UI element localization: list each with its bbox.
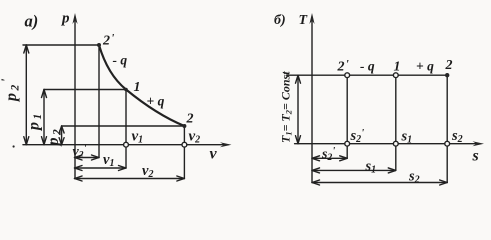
p axis — [74, 17, 76, 179]
point 2' right — [345, 73, 350, 78]
dimension line s1 — [312, 168, 396, 173]
isotherm curve 2'-1-2 — [99, 45, 184, 126]
vertical line from point 2 right — [446, 75, 448, 182]
point 1 right — [393, 73, 398, 78]
svg-text:- q: - q — [113, 53, 128, 68]
dimension line p2 — [59, 126, 64, 145]
svg-text:а): а) — [25, 12, 39, 31]
horizontal construction line at p2 — [62, 125, 185, 127]
point 2 right — [445, 73, 449, 77]
svg-text:s: s — [472, 148, 479, 165]
dimension line T1=T2=Const — [296, 75, 301, 144]
T axis — [311, 17, 313, 183]
svg-text:1: 1 — [134, 80, 141, 95]
s axis — [295, 143, 480, 145]
horizontal construction line at p2' — [23, 44, 99, 46]
svg-text:T1= T2= Const: T1= T2= Const — [279, 71, 294, 143]
vertical construction line from point 2 — [183, 126, 185, 179]
vertical line from point 1 right — [395, 75, 397, 170]
v axis — [23, 144, 228, 146]
svg-text:T: T — [299, 13, 309, 28]
point s1 on axis — [393, 141, 398, 146]
point s2' on axis — [345, 141, 350, 146]
horizontal construction line at p1 — [44, 89, 126, 91]
dimension line v2' — [75, 155, 100, 160]
svg-text:2: 2 — [445, 58, 453, 73]
vertical construction line from point 1 — [125, 90, 127, 169]
isotherm line T=const — [287, 74, 448, 76]
svg-text:v: v — [210, 146, 218, 163]
svg-text:+ q: + q — [416, 59, 434, 74]
vertical line from point 2' right — [346, 75, 348, 158]
point v1 on axis — [124, 142, 129, 147]
svg-text:+ q: + q — [147, 94, 165, 109]
dimension line v1 — [75, 166, 127, 171]
svg-text:2: 2 — [186, 112, 194, 127]
ink speck — [13, 145, 15, 147]
svg-text:1: 1 — [394, 60, 401, 75]
point s2 on axis — [445, 141, 450, 146]
point v2 on axis — [182, 142, 187, 147]
svg-text:p: p — [60, 11, 70, 27]
dimension line s2' — [312, 156, 347, 161]
dimension line p2' — [24, 45, 29, 145]
dimension line v2 — [75, 176, 185, 181]
point 1 — [124, 88, 128, 92]
point 2' — [97, 43, 101, 47]
point 2 — [182, 124, 186, 128]
svg-text:б): б) — [274, 13, 286, 28]
vertical construction line from point 2' — [98, 45, 100, 158]
dimension line s2 — [312, 180, 447, 185]
dimension line p1 — [42, 90, 47, 145]
svg-text:- q: - q — [360, 59, 375, 74]
